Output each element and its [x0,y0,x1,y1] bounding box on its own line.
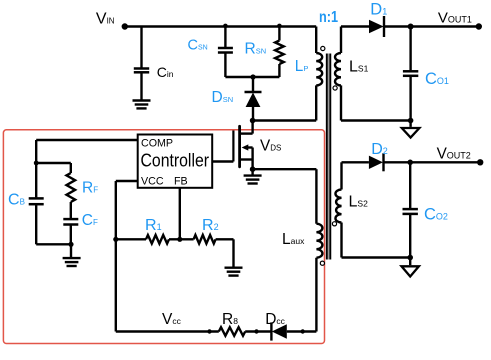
svg-text:n:1: n:1 [319,9,338,26]
svg-text:FB: FB [174,175,188,187]
svg-text:Controller: Controller [141,151,210,171]
svg-text:COMP: COMP [141,137,173,149]
svg-text:VCC: VCC [141,175,164,187]
